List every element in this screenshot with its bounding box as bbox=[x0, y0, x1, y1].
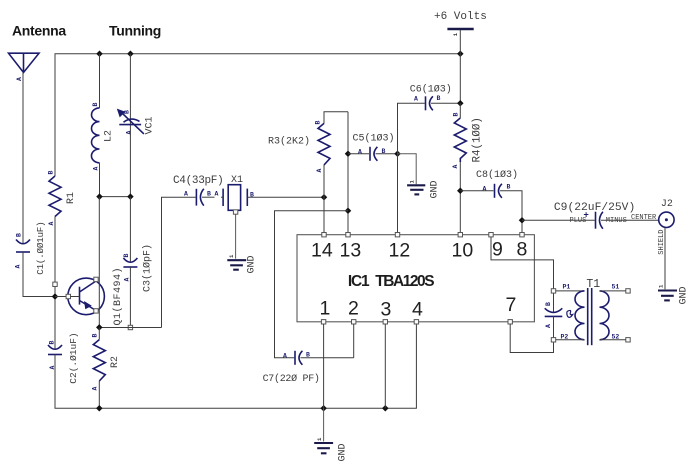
svg-text:1: 1 bbox=[658, 284, 665, 288]
node link13 bbox=[345, 207, 352, 214]
ground J2 bbox=[658, 284, 690, 305]
resistor R2 bbox=[92, 328, 122, 409]
connector J2 bbox=[659, 199, 674, 227]
svg-text:B: B bbox=[453, 113, 460, 117]
svg-text:GND: GND bbox=[247, 255, 258, 273]
svg-text:A: A bbox=[93, 167, 100, 171]
wire J2 shield bbox=[664, 228, 666, 290]
capacitor C2 bbox=[48, 332, 79, 383]
capacitor C5 bbox=[348, 133, 398, 161]
wire collector-emitter column bbox=[98, 197, 100, 328]
svg-text:B: B bbox=[315, 121, 322, 125]
svg-text:A: A bbox=[215, 191, 219, 198]
svg-text:B: B bbox=[306, 351, 310, 358]
pin 12 bbox=[389, 233, 411, 262]
pin 7 bbox=[506, 294, 517, 324]
variable capacitor VC1 bbox=[117, 54, 156, 197]
svg-text:1: 1 bbox=[228, 254, 235, 258]
wire pin3 column bbox=[384, 324, 386, 408]
wire pin13 column bbox=[347, 112, 349, 235]
svg-text:7: 7 bbox=[506, 294, 517, 316]
svg-text:B: B bbox=[48, 171, 55, 175]
svg-text:R2: R2 bbox=[110, 356, 121, 368]
node VC1 bottom bbox=[127, 193, 134, 200]
wire base bbox=[55, 296, 68, 298]
svg-text:1: 1 bbox=[320, 298, 331, 320]
resistor R1 bbox=[48, 171, 78, 226]
svg-text:C3(1ØpF): C3(1ØpF) bbox=[142, 244, 154, 292]
svg-text:B: B bbox=[507, 184, 511, 191]
pin 2 bbox=[348, 298, 359, 325]
pin 9 bbox=[489, 233, 503, 261]
node X1-R3 bbox=[321, 194, 328, 201]
wire emitter line bbox=[99, 327, 161, 329]
svg-text:A: A bbox=[358, 148, 362, 155]
svg-text:A: A bbox=[16, 77, 23, 81]
svg-text:B: B bbox=[123, 254, 130, 258]
capacitor C1 bbox=[15, 222, 47, 275]
wire C1 to base node bbox=[23, 252, 55, 297]
svg-text:C8(1Ø3): C8(1Ø3) bbox=[476, 169, 518, 181]
svg-text:A: A bbox=[414, 96, 418, 103]
svg-text:P1: P1 bbox=[563, 284, 571, 291]
svg-text:1: 1 bbox=[316, 437, 323, 441]
svg-text:GND: GND bbox=[679, 286, 690, 304]
node base bbox=[52, 293, 59, 300]
wire L2-VC1 bottom link bbox=[100, 196, 131, 198]
svg-text:L2: L2 bbox=[104, 130, 115, 142]
svg-text:R1: R1 bbox=[66, 192, 77, 204]
capacitor CT tank bbox=[545, 291, 573, 340]
wire pin7 link bbox=[510, 324, 553, 353]
svg-text:3: 3 bbox=[381, 299, 392, 321]
power +6 Volts bbox=[434, 11, 487, 103]
svg-text:C6(1Ø3): C6(1Ø3) bbox=[410, 83, 452, 95]
pin 4 bbox=[412, 299, 423, 325]
pin 14 bbox=[311, 233, 333, 262]
wire gnd stub bottom bbox=[323, 408, 325, 441]
capacitor C9 bbox=[522, 202, 659, 229]
pin 13 bbox=[340, 233, 362, 262]
svg-text:B: B bbox=[207, 191, 211, 198]
wire antenna down bbox=[22, 73, 24, 244]
svg-text:VC1: VC1 bbox=[145, 116, 156, 134]
svg-text:+: + bbox=[584, 210, 589, 220]
resistor R4 bbox=[452, 103, 484, 234]
svg-text:B: B bbox=[16, 233, 23, 237]
node R2 bottom bbox=[96, 405, 103, 412]
antenna AE1 bbox=[9, 53, 40, 81]
svg-text:MINUS: MINUS bbox=[606, 217, 627, 225]
svg-text:+6 Volts: +6 Volts bbox=[434, 11, 487, 23]
node C5 A bbox=[345, 151, 352, 158]
svg-text:R4(1ØØ): R4(1ØØ) bbox=[472, 117, 484, 162]
svg-text:SHIELD: SHIELD bbox=[658, 229, 666, 254]
svg-text:14: 14 bbox=[311, 240, 333, 262]
svg-text:J2: J2 bbox=[661, 199, 673, 210]
node C6 B bbox=[457, 100, 464, 107]
node pin3 bottom bbox=[382, 405, 389, 412]
svg-text:TBA120S: TBA120S bbox=[375, 273, 434, 290]
svg-text:13: 13 bbox=[340, 240, 362, 262]
wire C5 gnd stub bbox=[398, 154, 417, 185]
pin 10 bbox=[452, 233, 474, 262]
svg-text:C9(22uF/25V): C9(22uF/25V) bbox=[554, 202, 635, 214]
ground X1 bbox=[227, 254, 257, 274]
svg-text:A: A bbox=[15, 265, 22, 269]
svg-text:GND: GND bbox=[338, 443, 349, 461]
transformer T1 bbox=[551, 278, 630, 345]
svg-text:9: 9 bbox=[492, 239, 503, 261]
svg-text:A: A bbox=[124, 278, 131, 282]
pin 1 bbox=[320, 298, 331, 325]
svg-text:GND: GND bbox=[430, 180, 441, 198]
capacitor C7 bbox=[263, 351, 354, 385]
pin 3 bbox=[381, 299, 392, 325]
ground bottom bbox=[314, 437, 348, 462]
ground C5 bbox=[407, 180, 440, 199]
resistor R3 bbox=[268, 112, 348, 235]
IC1 TBA120S box bbox=[297, 235, 534, 322]
svg-text:B: B bbox=[49, 341, 56, 345]
svg-text:A: A bbox=[184, 191, 188, 198]
svg-text:Q1(BF494): Q1(BF494) bbox=[112, 267, 124, 326]
wire pin12 column bbox=[398, 103, 425, 234]
inductor L2 bbox=[91, 54, 114, 197]
wire bottom rail bbox=[55, 322, 416, 408]
svg-text:A: A bbox=[545, 324, 552, 328]
wire pin9 to T1 bbox=[491, 237, 554, 289]
svg-text:C2(.Ø1uF): C2(.Ø1uF) bbox=[68, 332, 79, 383]
node emitter/R2 bbox=[96, 324, 103, 331]
wire pin1 column bbox=[323, 324, 325, 408]
node +6V rail bbox=[457, 50, 464, 57]
capacitor C6 bbox=[410, 83, 461, 110]
node top VC1 bbox=[127, 50, 134, 57]
svg-text:C5(1Ø3): C5(1Ø3) bbox=[353, 133, 395, 145]
node C5 B bbox=[394, 151, 401, 158]
svg-text:4: 4 bbox=[412, 299, 423, 321]
svg-text:A: A bbox=[48, 222, 55, 226]
svg-text:1: 1 bbox=[452, 32, 459, 36]
node GND bottom bbox=[320, 405, 327, 412]
wire link to pin13 bbox=[275, 211, 349, 358]
svg-text:IC1: IC1 bbox=[348, 273, 370, 290]
svg-text:B: B bbox=[545, 302, 552, 306]
svg-text:C1(.ØØ1uF): C1(.ØØ1uF) bbox=[35, 222, 46, 275]
pin square C3 bottom bbox=[128, 325, 132, 329]
svg-text:B: B bbox=[437, 95, 441, 102]
svg-text:12: 12 bbox=[389, 240, 411, 262]
svg-text:C7(22Ø PF): C7(22Ø PF) bbox=[263, 373, 320, 385]
node L2 bottom bbox=[96, 193, 103, 200]
svg-text:A: A bbox=[126, 131, 133, 135]
pin 8 bbox=[517, 233, 528, 261]
svg-text:Tunning: Tunning bbox=[109, 23, 161, 39]
node top L2 bbox=[96, 50, 103, 57]
wire C4 riser bbox=[162, 197, 196, 327]
svg-text:51: 51 bbox=[612, 284, 620, 291]
svg-text:A: A bbox=[483, 185, 487, 192]
svg-text:1: 1 bbox=[409, 180, 416, 184]
svg-text:Antenna: Antenna bbox=[12, 23, 66, 39]
svg-text:10: 10 bbox=[452, 240, 474, 262]
svg-text:8: 8 bbox=[517, 239, 528, 261]
svg-text:A: A bbox=[283, 352, 287, 359]
svg-text:B: B bbox=[92, 103, 99, 107]
node C9 tap bbox=[519, 217, 526, 224]
wire X1 ground stub bbox=[235, 214, 237, 259]
capacitor C4 bbox=[173, 175, 223, 206]
capacitor C8 bbox=[460, 169, 522, 235]
wire pin2 column bbox=[353, 324, 355, 358]
wire R1 to base node bbox=[54, 217, 56, 350]
svg-text:B: B bbox=[124, 110, 131, 114]
svg-text:CENTER: CENTER bbox=[631, 214, 657, 222]
svg-text:C4(33pF): C4(33pF) bbox=[173, 175, 223, 187]
transistor Q1 bbox=[66, 267, 124, 326]
wire top rail bbox=[55, 54, 460, 176]
svg-text:R3(2K2): R3(2K2) bbox=[268, 136, 310, 148]
pin square R1 wire bbox=[53, 282, 57, 286]
capacitor C3 bbox=[123, 197, 154, 328]
node R4 bottom bbox=[457, 188, 464, 195]
svg-text:2: 2 bbox=[348, 298, 359, 320]
svg-text:A: A bbox=[452, 165, 459, 169]
svg-text:B: B bbox=[92, 334, 99, 338]
svg-text:A: A bbox=[92, 387, 99, 391]
svg-text:A: A bbox=[316, 169, 323, 173]
crystal X1 bbox=[215, 175, 325, 214]
